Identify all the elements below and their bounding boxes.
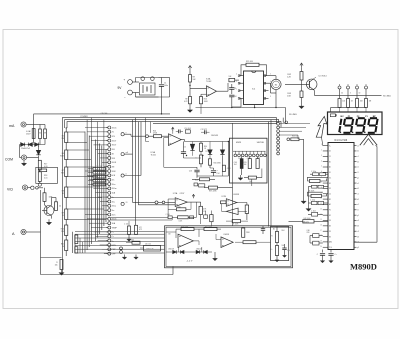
label R56 R57: [181, 226, 213, 228]
capacitor C22 100p: [308, 185, 328, 188]
svg-text:900: 900: [39, 132, 42, 134]
wires circle column to IC: [280, 124, 311, 139]
wire buzzer to bus: [269, 83, 277, 107]
wire bus line 2: [34, 113, 170, 115]
resistor ladder stack: [88, 168, 106, 186]
svg-text:10K: 10K: [168, 233, 171, 235]
resistor R9 1K: [62, 209, 68, 220]
diode D23: [204, 250, 208, 253]
wire bus drop right: [283, 108, 285, 123]
resistor R44 100K: [168, 207, 191, 211]
battery BT1 9V: [118, 77, 133, 99]
battery low icon: [330, 114, 336, 117]
svg-text:e1: e1: [357, 167, 359, 169]
svg-text:200V: 200V: [112, 140, 117, 142]
svg-text:F2: F2: [329, 210, 331, 212]
resistor R27 10K: [184, 97, 191, 104]
LCD decimal points: [340, 132, 366, 134]
resistor R19 10M: [43, 188, 53, 202]
svg-text:0.3: 0.3: [341, 92, 343, 94]
svg-text:C 104: C 104: [311, 210, 316, 212]
svg-text:R 100: R 100: [96, 181, 100, 183]
wire IC2A out: [187, 201, 200, 203]
resistor R35: [192, 178, 215, 182]
resistor R1 900: [39, 125, 42, 145]
svg-text:C10 104: C10 104: [184, 128, 190, 130]
annunciator arrow right: [360, 134, 377, 145]
svg-text:R64: R64: [282, 230, 285, 232]
svg-text:472: 472: [139, 227, 142, 229]
svg-text:30: 30: [359, 92, 361, 94]
svg-text:D3: D3: [329, 220, 331, 222]
svg-text:F3: F3: [329, 231, 331, 233]
ground bottom box: [213, 252, 218, 261]
svg-text:AC-DC: AC-DC: [303, 220, 309, 223]
svg-text:E3: E3: [329, 236, 331, 238]
capacitor C3: [229, 84, 234, 94]
capacitor C15: [127, 221, 131, 241]
wire network bottom: [197, 168, 228, 176]
wire mA to fuse node: [26, 114, 33, 144]
label DIP pin numbers: [236, 74, 271, 99]
label sprinkle small values: [126, 92, 361, 235]
diode D10: [190, 142, 194, 156]
capacitor C24 104: [308, 210, 323, 216]
resistor R45: [347, 89, 354, 107]
svg-text:250V: 250V: [26, 134, 31, 136]
resistor R39 100K: [172, 216, 196, 223]
resistor R38 220K: [204, 186, 233, 192]
capacitor C35: [282, 244, 286, 253]
label R33 value: [145, 243, 154, 250]
svg-text:2u: 2u: [112, 197, 114, 199]
svg-text:R30: R30: [204, 146, 207, 148]
svg-text:C04: C04: [238, 158, 241, 160]
resistor R43 1.6K: [287, 80, 303, 98]
svg-text:R56 220K: R56 220K: [181, 226, 189, 228]
capacitor C30: [234, 157, 243, 169]
capacitor C20: [310, 173, 319, 176]
resistor R46: [356, 89, 364, 107]
ground inner box: [275, 253, 287, 262]
op-amp IC3 TL061: [151, 134, 182, 157]
capacitor C18 104: [190, 216, 194, 219]
wire IC3 feedback loop: [164, 138, 197, 168]
svg-text:6.3 9014: 6.3 9014: [319, 76, 328, 78]
svg-text:e2: e2: [357, 204, 359, 206]
resistor R54: [226, 220, 248, 226]
resistor R55 220K: [242, 228, 251, 237]
resistor R2 90K: [34, 125, 48, 145]
svg-text:18: 18: [320, 235, 322, 237]
IC U3 op-amp DIP8: [238, 71, 268, 105]
svg-text:E1: E1: [329, 183, 331, 185]
resistor R11 10: [61, 240, 68, 251]
svg-text:R29 10K: R29 10K: [246, 61, 254, 63]
svg-text:R 300K: R 300K: [309, 190, 315, 192]
resistor R63: [75, 247, 78, 253]
svg-text:R 500: R 500: [96, 178, 100, 180]
inner box right: [271, 227, 289, 261]
fuse F1 0.2A/250V: [26, 129, 35, 139]
svg-text:20m: 20m: [112, 214, 116, 216]
svg-text:100u: 100u: [164, 85, 168, 87]
svg-text:E2: E2: [329, 215, 331, 217]
wire nest verticals: [85, 132, 106, 253]
resistor R48 100K AC-DC: [289, 220, 329, 224]
diode D1: [20, 143, 46, 147]
svg-text:10k: 10k: [55, 265, 58, 267]
svg-text:2M: 2M: [112, 166, 115, 168]
resistor R58: [235, 241, 271, 244]
capacitor C16 472: [135, 225, 142, 234]
label R29: [246, 61, 254, 63]
svg-text:224: 224: [307, 232, 310, 234]
svg-text:mA: mA: [9, 124, 15, 128]
wire bus left rail: [61, 132, 63, 275]
svg-text:D1: D1: [329, 151, 331, 153]
resistor R42 1.2K: [287, 68, 303, 80]
resistor R36b: [200, 151, 203, 164]
svg-text:R57 220K: R57 220K: [205, 226, 213, 228]
resistor R33: [140, 245, 161, 251]
svg-text:g1: g1: [357, 177, 359, 179]
capacitor C10: [176, 130, 183, 134]
svg-text:COM: COM: [5, 157, 13, 161]
label C15 C16: [124, 224, 142, 230]
ground at R43: [299, 98, 304, 109]
wire wiper row 3: [124, 175, 141, 177]
capacitor C27 bottom: [328, 250, 336, 263]
supply arrow VB: [188, 66, 191, 71]
svg-text:2m: 2m: [112, 180, 115, 182]
label inner box parts: [282, 230, 291, 252]
wire bus line 4: [65, 120, 279, 128]
svg-text:C05: C05: [244, 162, 247, 164]
svg-text:200: 200: [112, 149, 115, 151]
svg-text:R26: R26: [195, 179, 198, 181]
op-amp U2: [206, 77, 217, 96]
resistor R31 470K: [148, 130, 168, 137]
svg-text:15: 15: [320, 219, 322, 221]
connector circle column: [277, 122, 280, 155]
svg-text:C10: C10: [287, 250, 290, 252]
capacitor C13 1uF: [189, 167, 200, 178]
transistor Q2 9014: [285, 76, 327, 91]
svg-text:TL062: TL062: [206, 81, 211, 83]
svg-text:M890D: M890D: [350, 261, 377, 271]
svg-text:C14: C14: [217, 173, 220, 175]
resistor R44: [338, 89, 345, 107]
svg-text:17: 17: [320, 230, 322, 232]
resistor R60 22K: [271, 227, 278, 243]
svg-text:b3: b3: [357, 226, 359, 228]
IC U1 right pins: [354, 145, 359, 249]
ground at R27: [187, 104, 192, 113]
resistor R62 2K: [75, 235, 78, 244]
resistor R57: [204, 228, 217, 231]
svg-text:200K: 200K: [112, 162, 117, 164]
shunt box: [36, 167, 58, 183]
svg-text:C1: C1: [329, 156, 331, 158]
svg-text:B1: B1: [329, 161, 331, 163]
wire A3 feedback net: [176, 229, 221, 245]
wire Q2 emitter rail: [314, 90, 391, 97]
svg-text:11: 11: [320, 198, 322, 200]
svg-text:20u: 20u: [112, 201, 115, 203]
svg-text:100: 100: [342, 101, 345, 103]
svg-text:1.6K: 1.6K: [287, 95, 292, 97]
svg-text:C-: C-: [112, 240, 114, 242]
label POWER: [81, 113, 109, 118]
svg-text:C 100p: C 100p: [311, 171, 316, 173]
capacitor C14 10uF: [211, 168, 220, 176]
terminal A: [12, 229, 26, 236]
svg-text:B2: B2: [329, 199, 331, 201]
diode D12: [220, 142, 224, 155]
LCD display: [328, 112, 383, 135]
label ladder values: [96, 165, 103, 184]
capacitor C4: [229, 95, 234, 107]
wire opamp out to DIP: [217, 83, 229, 91]
svg-text:IC3A: IC3A: [151, 151, 156, 154]
svg-text:10: 10: [320, 192, 322, 194]
svg-text:R33 1.5K: R33 1.5K: [147, 248, 155, 250]
buzzer BZ1: [269, 76, 282, 90]
svg-text:IC2A: IC2A: [173, 192, 178, 195]
svg-text:20m: 20m: [112, 184, 116, 186]
op-amp IC2A: [175, 198, 187, 207]
capacitor C19: [204, 211, 208, 219]
capacitor C11 104: [184, 128, 190, 133]
wire bus to annunciator arrow: [376, 145, 378, 146]
svg-text:14: 14: [320, 214, 322, 216]
resistor R18 0.01: [38, 170, 47, 181]
resistor R26: [189, 70, 197, 96]
svg-text:C12 472: C12 472: [201, 129, 207, 131]
power jack J1: [140, 77, 156, 95]
svg-text:0.99: 0.99: [44, 166, 48, 168]
svg-text:OP07: OP07: [180, 193, 185, 195]
svg-text:a1: a1: [357, 145, 359, 147]
ground at COM: [21, 160, 26, 166]
test point TP3: [356, 84, 359, 89]
svg-text:LM358: LM358: [233, 194, 239, 196]
resistor R51 47K: [199, 202, 207, 215]
resistor R61: [270, 243, 278, 256]
svg-text:b2: b2: [357, 188, 359, 190]
wire battery rail: [136, 78, 170, 114]
svg-text:V+: V+: [329, 145, 331, 147]
op-amp IC2E: [221, 234, 233, 248]
svg-text:240 104: 240 104: [145, 243, 151, 245]
wire battery to jack: [132, 78, 158, 98]
svg-text:200m: 200m: [112, 188, 117, 190]
resistor R56: [181, 228, 194, 231]
svg-text:1N4148: 1N4148: [211, 135, 219, 137]
wire bundle mid verticals: [133, 118, 142, 226]
svg-text:0.01: 0.01: [44, 178, 48, 180]
op-amp IC2B: [226, 199, 237, 207]
wire DIP bottom to bus: [232, 98, 255, 107]
svg-text:4N28: 4N28: [236, 142, 242, 144]
wire A2 feedback: [168, 199, 196, 217]
svg-text:200m: 200m: [112, 219, 117, 221]
wire bus line 2b: [153, 121, 287, 123]
resistor R29 over DIP: [241, 63, 267, 75]
svg-text:ON/OFF: ON/OFF: [101, 113, 109, 115]
resistor R32 240: [126, 240, 140, 245]
svg-text:1N4148: 1N4148: [196, 248, 202, 250]
wire A to bottom rail: [26, 190, 40, 275]
IC U4 4N28 14070B box: [230, 138, 268, 183]
svg-text:0.2A/: 0.2A/: [26, 130, 31, 133]
svg-text:C06: C06: [257, 157, 260, 159]
IC U1 ICL7106 body: [328, 143, 354, 250]
capacitor C16: [181, 142, 186, 159]
resistor R28: [229, 78, 239, 81]
wire long vertical mid: [232, 123, 234, 226]
svg-text:c3: c3: [357, 231, 359, 233]
capacitor C21: [320, 173, 329, 176]
transistor Q1: [42, 205, 54, 216]
wire bus line 1: [196, 107, 286, 109]
svg-text:BV: BV: [341, 116, 345, 118]
svg-text:104: 104: [244, 164, 247, 166]
switch wiper contacts: [120, 133, 125, 254]
test point TP1: [338, 84, 341, 89]
wire nest risers: [87, 118, 104, 148]
wire amp network: [184, 142, 229, 177]
wire A2 node: [200, 215, 202, 224]
svg-text:C+: C+: [270, 249, 272, 251]
svg-text:R44: R44: [178, 207, 181, 209]
label IC2A: [173, 192, 185, 195]
svg-text:20: 20: [320, 246, 322, 248]
svg-text:G1: G1: [329, 177, 331, 179]
svg-text:19: 19: [320, 241, 322, 243]
capacitor C26 bottom: [317, 250, 325, 263]
resistor R41 loop: [308, 192, 327, 197]
svg-text:d1: d1: [357, 161, 359, 163]
label IC1 ICL7106: [334, 140, 348, 142]
resistor R50: [244, 169, 262, 187]
ground IC left: [306, 187, 311, 212]
svg-text:POWER: POWER: [81, 116, 89, 118]
svg-text:R40 100: R40 100: [292, 136, 298, 138]
label diodes bottom: [168, 248, 202, 250]
svg-text:TEMP: TEMP: [112, 227, 118, 229]
ground mid right: [301, 198, 306, 204]
wire IC right bus: [354, 147, 377, 243]
wire contact rows to feedback net: [111, 198, 172, 221]
wire divider column joins: [65, 128, 67, 256]
svg-text:a2: a2: [357, 183, 359, 185]
label R44d: [369, 101, 372, 103]
svg-text:C04: C04: [234, 162, 237, 164]
svg-text:SD 4MΩ: SD 4MΩ: [383, 95, 391, 97]
label IC pin numbers: [320, 144, 322, 248]
resistor R53: [237, 203, 249, 221]
diode D4: [36, 146, 40, 160]
svg-text:12: 12: [320, 203, 322, 205]
svg-text:c2: c2: [357, 193, 359, 195]
rotary switch contact column: [106, 126, 118, 255]
svg-text:900: 900: [282, 245, 285, 247]
capacitor C23: [309, 201, 329, 204]
shield box double: [165, 226, 293, 268]
wire IC3 output: [181, 140, 228, 142]
ground bottom left cluster: [122, 255, 138, 260]
svg-text:d2: d2: [357, 199, 359, 201]
label SD 4M: [289, 114, 297, 116]
svg-text:13: 13: [320, 208, 322, 210]
wire COM to shunt node: [20, 145, 39, 158]
resistor R20 22K: [52, 198, 62, 211]
wire mid risers to bus: [146, 118, 151, 142]
label M890D: [350, 261, 377, 271]
IC U1 left pins: [323, 145, 333, 249]
svg-text:SD 4MΩ: SD 4MΩ: [289, 114, 297, 116]
svg-text:C+: C+: [335, 254, 337, 256]
wire Q1 emitter to ground: [45, 201, 52, 218]
wire resistor commons to LCD: [331, 107, 366, 112]
label IC2B LM358: [222, 194, 239, 198]
resistor R37 10K: [209, 155, 222, 165]
svg-text:22: 22: [59, 206, 61, 208]
resistor R50 input: [221, 201, 227, 204]
resistor R52: [210, 211, 213, 227]
svg-text:b1: b1: [357, 151, 359, 153]
svg-text:1N4007x2: 1N4007x2: [21, 148, 31, 150]
wire nest stubs to contacts: [85, 128, 108, 254]
svg-text:1N4148: 1N4148: [168, 248, 174, 250]
wire bottom box top feeds: [166, 232, 221, 240]
resistor R34 470K: [222, 165, 231, 171]
svg-text:C13: C13: [189, 170, 192, 172]
test point TP2: [347, 84, 350, 89]
svg-text:V: V: [126, 132, 127, 134]
wire arrow tail to IC: [322, 137, 323, 145]
resistor R27b 100K: [200, 94, 209, 114]
svg-text:B3: B3: [329, 226, 331, 228]
svg-text:104: 104: [249, 181, 252, 183]
svg-text:C 100p: C 100p: [310, 200, 315, 202]
label R28: [229, 76, 233, 78]
wire diode row drops: [166, 247, 202, 252]
capacitor C17 104: [166, 214, 173, 219]
svg-text:a3: a3: [357, 220, 359, 222]
svg-text:C 104: C 104: [166, 214, 170, 216]
capacitor C31: [244, 157, 252, 169]
label IC cluster values: [304, 171, 317, 220]
svg-text:240: 240: [131, 240, 134, 242]
svg-text:20M: 20M: [112, 171, 116, 173]
resistor R36 1K: [200, 142, 208, 152]
resistor R8 9K: [62, 187, 68, 198]
label -1.2V: [187, 261, 193, 263]
resistor R5 9M: [62, 132, 68, 143]
wire circle to Q divider: [287, 136, 304, 199]
wire IC2C loop: [222, 204, 247, 211]
diode D21: [180, 250, 184, 253]
terminal COM: [5, 155, 27, 161]
svg-text:-1.2 V: -1.2 V: [187, 261, 193, 263]
resistor R17 0.99: [38, 160, 47, 170]
capacitor C1 100u: [159, 78, 168, 98]
supply arrow VT: [300, 63, 303, 68]
capacitor C25 224: [307, 230, 323, 238]
